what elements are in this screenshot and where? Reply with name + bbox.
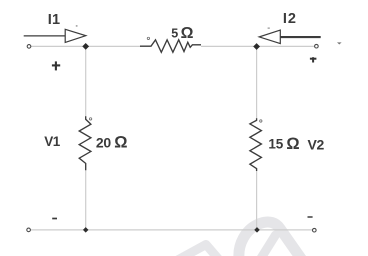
wire right vertical upper bbox=[256, 46, 258, 118]
value label 5 ohm bbox=[171, 25, 193, 42]
pin circle R1 bbox=[147, 37, 149, 39]
svg-text:20: 20 bbox=[96, 134, 111, 150]
terminal top-right bbox=[315, 44, 319, 48]
label V1 bbox=[44, 134, 61, 149]
resistor R1 5ohm bbox=[140, 40, 201, 53]
svg-text:Ω: Ω bbox=[114, 134, 127, 152]
svg-text:V1: V1 bbox=[44, 134, 61, 149]
plus sign right (V2 +) bbox=[310, 57, 317, 62]
wire bottom horizontal bbox=[29, 229, 315, 231]
watermark chevron stroke bbox=[174, 245, 221, 256]
pin circle R3 bbox=[260, 120, 262, 122]
stray dot near I1 arrow bbox=[76, 25, 78, 27]
plus sign left (V1 +) bbox=[52, 61, 60, 70]
svg-text:5: 5 bbox=[171, 27, 178, 41]
terminal bottom-right bbox=[313, 228, 317, 232]
svg-text:V2: V2 bbox=[308, 137, 325, 153]
minus sign bottom right (V2 terminal -) bbox=[308, 216, 313, 218]
svg-text:Ω: Ω bbox=[286, 135, 299, 153]
resistor R3 15ohm bbox=[250, 118, 262, 171]
junction dot node C bottom-left bbox=[83, 227, 89, 233]
svg-text:15: 15 bbox=[268, 137, 283, 152]
junction dot node A top-left bbox=[82, 43, 89, 50]
value label 20 ohm bbox=[96, 134, 128, 152]
wire left vertical lower bbox=[85, 170, 87, 230]
wire left vertical upper bbox=[85, 46, 87, 116]
wire top horizontal left bbox=[29, 45, 141, 47]
terminal bottom-left bbox=[27, 228, 31, 232]
junction dot node B top-right bbox=[253, 43, 260, 50]
label I2 bbox=[283, 11, 297, 27]
junction dot node D bottom-right bbox=[254, 227, 260, 233]
wire right vertical lower bbox=[256, 171, 258, 230]
label I1 bbox=[48, 12, 61, 28]
watermark arch stroke bbox=[239, 222, 304, 256]
resistor R2 20ohm bbox=[79, 116, 91, 170]
svg-text:Ω: Ω bbox=[181, 25, 194, 42]
svg-text:I1: I1 bbox=[48, 12, 61, 28]
minus sign far right (V2 -) bbox=[337, 42, 342, 44]
pin circle R2 bbox=[89, 118, 91, 120]
wire top horizontal right bbox=[201, 45, 316, 47]
minus sign bottom left (V1 -) bbox=[52, 218, 57, 220]
terminal top-left bbox=[27, 45, 31, 49]
value label 15 ohm bbox=[268, 135, 299, 153]
svg-text:I2: I2 bbox=[283, 11, 297, 27]
current source arrow I1 bbox=[24, 29, 86, 42]
label V2 bbox=[308, 137, 325, 153]
watermark inner diagonal stroke bbox=[261, 235, 276, 256]
current source arrow I2 bbox=[259, 30, 321, 43]
stray dash near I2 arrow bbox=[268, 27, 270, 29]
